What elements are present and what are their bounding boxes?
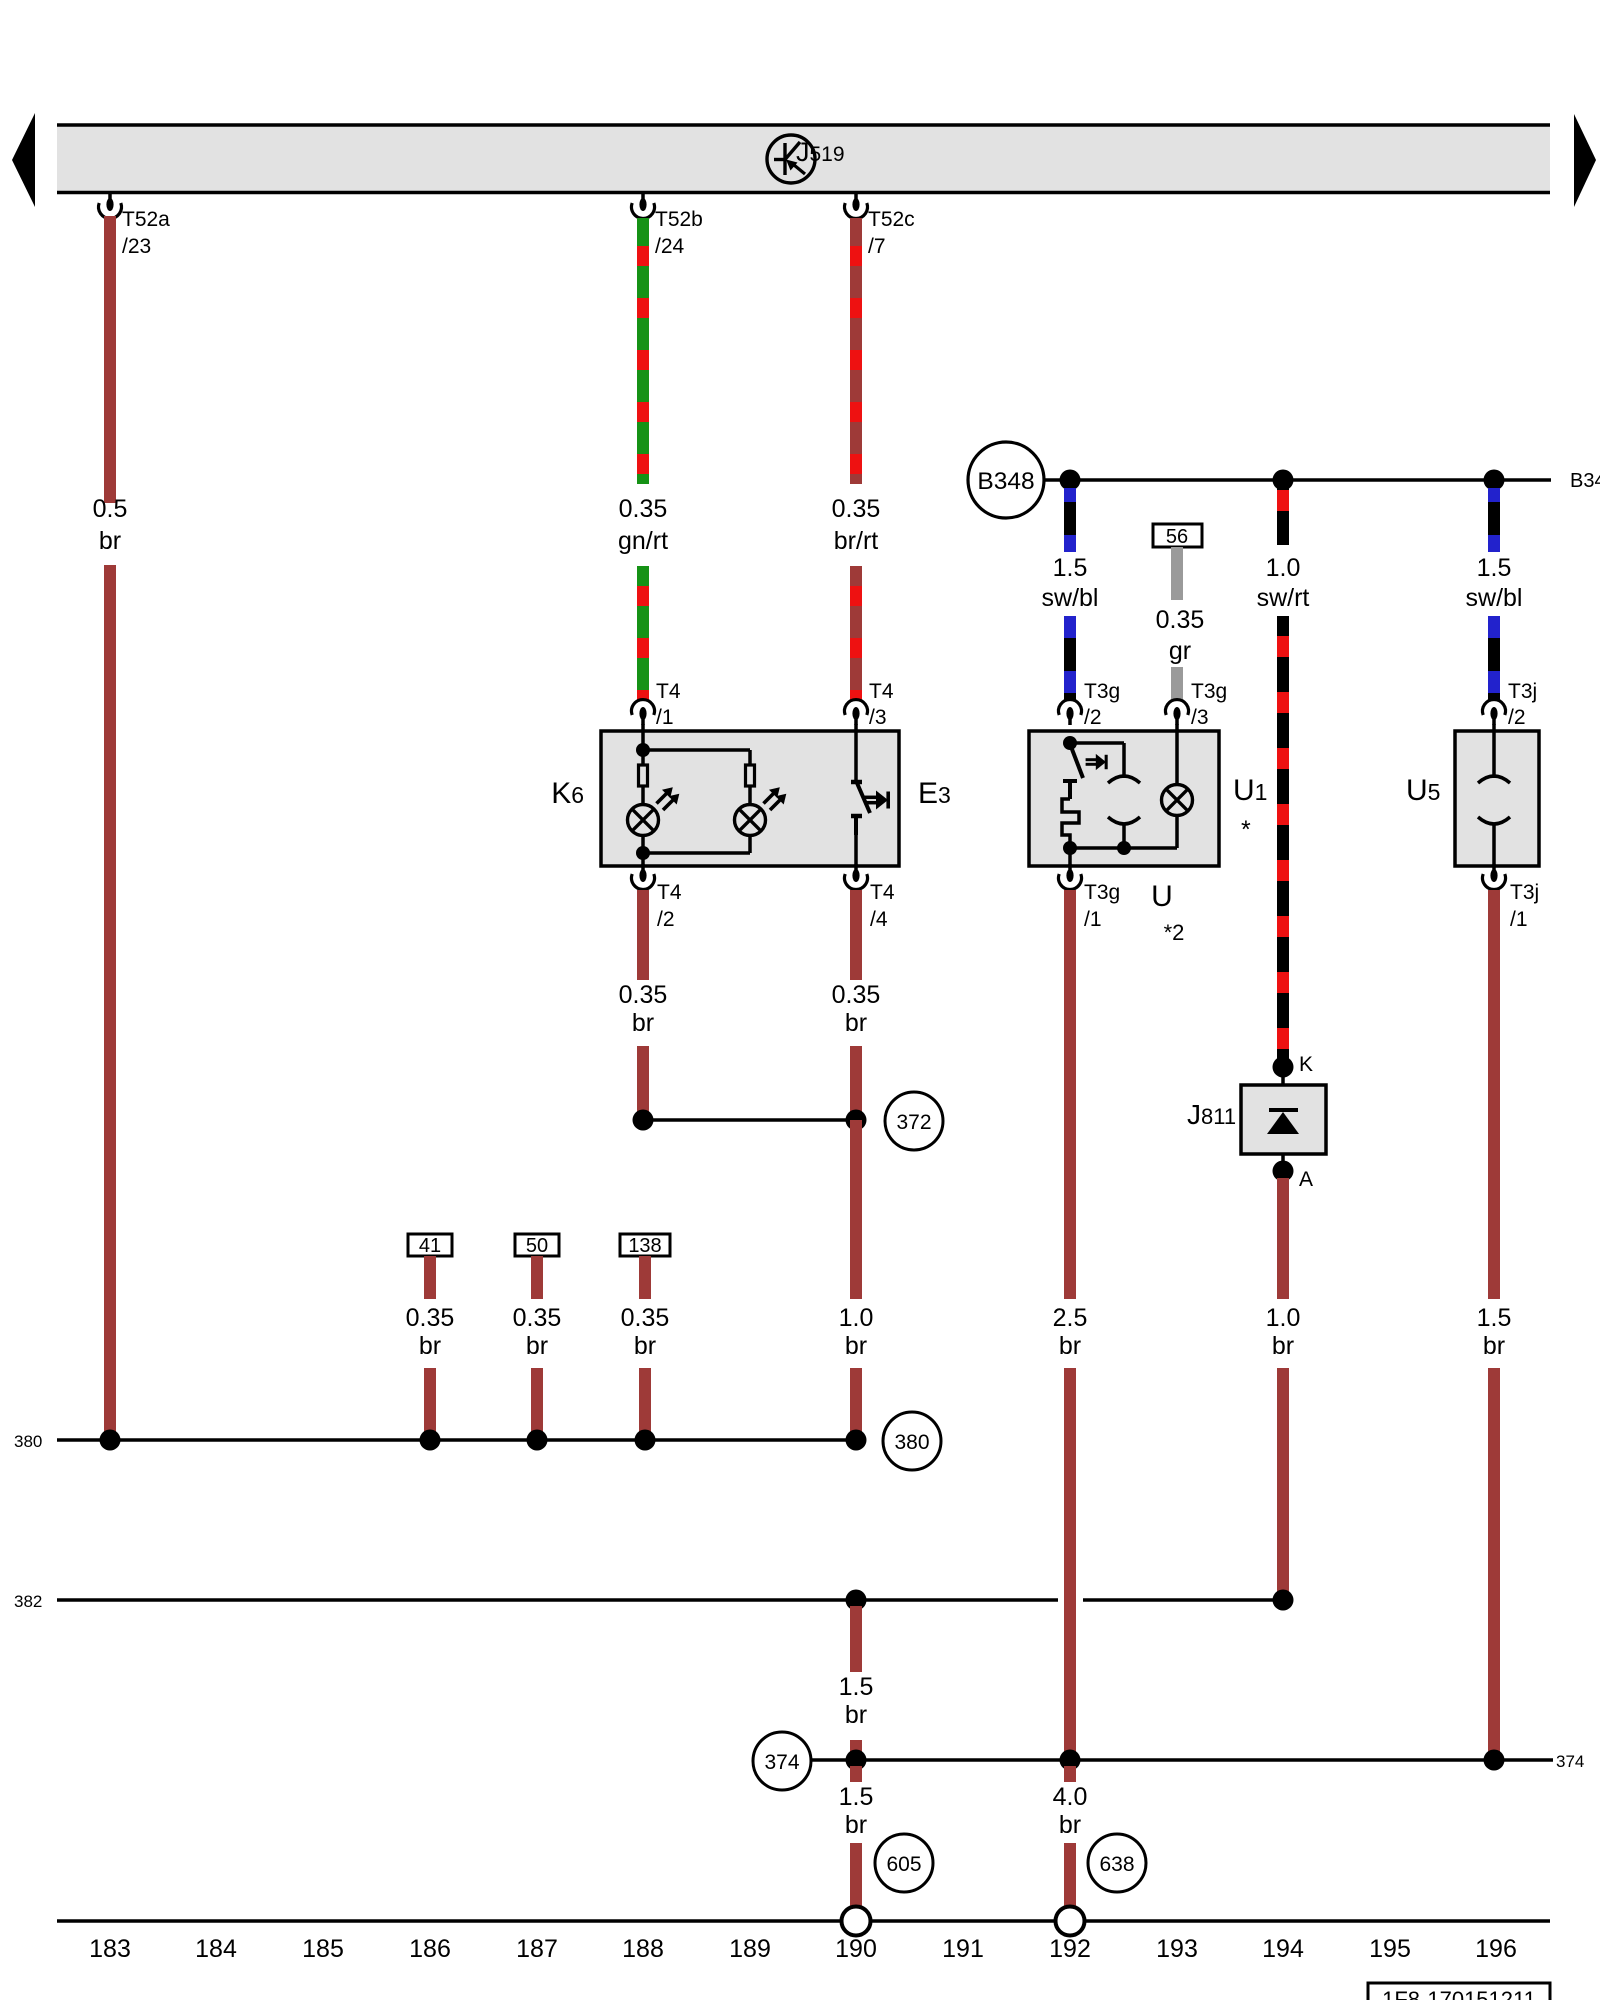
svg-text:4.0: 4.0 <box>1053 1783 1088 1811</box>
svg-text:1F8-170151211: 1F8-170151211 <box>1382 1987 1536 2000</box>
node circle 605 <box>875 1834 933 1892</box>
node circle 638 <box>1088 1834 1146 1892</box>
wire 1.0 br from J811/A (x=1283) <box>1277 1178 1289 1594</box>
svg-text:196: 196 <box>1475 1935 1517 1963</box>
connector T52b/24 <box>632 193 655 218</box>
part number box <box>1368 1983 1550 2000</box>
junction 374/x1494 <box>1484 1750 1505 1771</box>
junction 380/x430 <box>420 1430 441 1451</box>
wire 1.0 sw/rt (x=1283) <box>1277 488 1289 1060</box>
svg-text:/7: /7 <box>868 235 886 258</box>
svg-text:B348: B348 <box>977 468 1034 495</box>
wire 4.0 br x=1070 below 374 to ground 638 <box>1064 1766 1076 1782</box>
svg-text:1.5: 1.5 <box>1477 554 1512 582</box>
svg-text:E3: E3 <box>918 777 951 810</box>
svg-text:194: 194 <box>1262 1935 1304 1963</box>
svg-text:1.5: 1.5 <box>1477 1304 1512 1332</box>
svg-text:187: 187 <box>516 1935 558 1963</box>
wire 1.5 sw/bl (x=1494) <box>1488 488 1500 700</box>
svg-text:/1: /1 <box>1510 908 1528 931</box>
box K6/E3 <box>601 731 899 866</box>
svg-text:br: br <box>1059 1811 1081 1839</box>
svg-text:sw/rt: sw/rt <box>1257 584 1310 612</box>
svg-text:*: * <box>1241 816 1251 844</box>
svg-text:382: 382 <box>14 1592 42 1611</box>
wire 0.35 gn/rt from T52b (x=643) <box>637 218 649 700</box>
E3 switch with illumination <box>851 724 870 866</box>
svg-text:U5: U5 <box>1406 774 1440 807</box>
svg-text:0.35: 0.35 <box>621 1304 670 1332</box>
svg-text:/4: /4 <box>870 908 888 931</box>
connector T3g/3 <box>1166 700 1189 725</box>
box U1 <box>1029 731 1219 866</box>
svg-text:br: br <box>632 1009 654 1037</box>
svg-text:0.5: 0.5 <box>93 495 128 523</box>
wire 1.5 sw/bl (x=1070) <box>1064 488 1076 700</box>
svg-text:1.0: 1.0 <box>1266 554 1301 582</box>
connector T3g/2 <box>1059 700 1082 725</box>
svg-text:0.35: 0.35 <box>832 981 881 1009</box>
U1 antenna coupling <box>1070 743 1140 848</box>
connector T4/2 <box>632 864 655 889</box>
svg-text:605: 605 <box>886 1853 921 1876</box>
svg-text:1.5: 1.5 <box>1053 554 1088 582</box>
svg-text:193: 193 <box>1156 1935 1198 1963</box>
svg-text:638: 638 <box>1099 1853 1134 1876</box>
svg-text:gn/rt: gn/rt <box>618 527 668 555</box>
svg-text:br: br <box>1059 1332 1081 1360</box>
svg-text:0.35: 0.35 <box>406 1304 455 1332</box>
wire 2.5 br from T3g/1 (x=1070) <box>1064 890 1076 1752</box>
svg-text:0.35: 0.35 <box>619 495 668 523</box>
K6 lamp branch 2 <box>746 750 755 853</box>
junction on B348 at x=1070 <box>1060 470 1081 491</box>
connector T52a/23 <box>99 193 122 218</box>
svg-text:br: br <box>1483 1332 1505 1360</box>
terminal box 41 <box>408 1234 452 1257</box>
svg-text:U1: U1 <box>1233 774 1267 807</box>
svg-text:0.35: 0.35 <box>619 981 668 1009</box>
wire 0.35 br from T4/2 (x=643) <box>637 890 649 1115</box>
svg-text:192: 192 <box>1049 1935 1091 1963</box>
svg-text:195: 195 <box>1369 1935 1411 1963</box>
svg-text:1.0: 1.0 <box>839 1304 874 1332</box>
wire 1.0 br below 372 (x=856) <box>850 1120 862 1299</box>
svg-text:br: br <box>1272 1332 1294 1360</box>
junction 374/x1070 <box>1060 1750 1081 1771</box>
svg-text:184: 184 <box>195 1935 237 1963</box>
junction on B348 at x=1494 <box>1484 470 1505 491</box>
box J811 <box>1241 1085 1326 1154</box>
svg-text:0.35: 0.35 <box>513 1304 562 1332</box>
svg-text:T4: T4 <box>869 680 894 703</box>
svg-text:/23: /23 <box>122 235 151 258</box>
connector T4/4 <box>845 864 868 889</box>
connector T3j/1 <box>1483 864 1506 889</box>
svg-text:sw/bl: sw/bl <box>1466 584 1523 612</box>
svg-text:br: br <box>419 1332 441 1360</box>
connector T4/3 <box>845 700 868 725</box>
wire 0.35 gr (x=1177) <box>1171 547 1183 700</box>
svg-text:br: br <box>845 1009 867 1037</box>
node circle 374 <box>753 1732 811 1790</box>
svg-text:50: 50 <box>526 1235 548 1257</box>
junction 380/x856 <box>846 1430 867 1451</box>
svg-text:0.35: 0.35 <box>1156 606 1205 634</box>
node K <box>1273 1057 1294 1078</box>
svg-text:U: U <box>1151 880 1173 913</box>
wire 0.35 br/rt from T52c (x=856) <box>850 218 862 700</box>
svg-text:T52c: T52c <box>868 208 915 231</box>
svg-text:J811: J811 <box>1187 1099 1236 1130</box>
svg-text:56: 56 <box>1166 526 1188 548</box>
svg-text:br: br <box>634 1332 656 1360</box>
svg-text:138: 138 <box>628 1235 661 1257</box>
svg-text:/3: /3 <box>1191 706 1209 729</box>
J519 control-unit symbol <box>767 135 815 183</box>
svg-text:K: K <box>1299 1053 1313 1076</box>
fuse box 56 <box>1153 524 1202 548</box>
connector T3j/2 <box>1483 700 1506 725</box>
wire 1.5 br x=856 below 374 to ground 605 <box>850 1766 862 1782</box>
svg-text:380: 380 <box>894 1431 929 1454</box>
svg-text:T3g: T3g <box>1084 881 1120 904</box>
connector T4/1 <box>632 700 655 725</box>
svg-text:2.5: 2.5 <box>1053 1304 1088 1332</box>
svg-text:gr: gr <box>1169 637 1191 665</box>
svg-text:br/rt: br/rt <box>834 527 879 555</box>
svg-text:189: 189 <box>729 1935 771 1963</box>
J811 through line <box>1281 1067 1285 1171</box>
U1 stepped element <box>1062 799 1079 848</box>
node circle B348 <box>968 442 1044 518</box>
junction 380/x645 <box>635 1430 656 1451</box>
wire 1.5 br from T3j/1 (x=1494) <box>1488 890 1500 1752</box>
svg-text:/3: /3 <box>869 706 887 729</box>
node circle 380 <box>883 1412 941 1470</box>
diode symbol <box>1267 1110 1299 1134</box>
svg-text:372: 372 <box>896 1111 931 1134</box>
wire 1.5 br x=856 between 382 and 374 <box>850 1606 862 1672</box>
svg-text:T3j: T3j <box>1508 680 1537 703</box>
wire 0.35 br from T4/4 (x=856) <box>850 890 862 1115</box>
svg-text:/1: /1 <box>656 706 674 729</box>
svg-text:186: 186 <box>409 1935 451 1963</box>
svg-text:br: br <box>526 1332 548 1360</box>
junction on B348 at x=1283 <box>1273 470 1294 491</box>
svg-text:/2: /2 <box>1508 706 1526 729</box>
svg-text:191: 191 <box>942 1935 984 1963</box>
junction 374/x856 <box>846 1750 867 1771</box>
U5 antenna coupling <box>1478 724 1510 866</box>
svg-text:/2: /2 <box>657 908 675 931</box>
junction 380/x110 <box>100 1430 121 1451</box>
node circle 372 <box>885 1092 943 1150</box>
svg-text:K6: K6 <box>551 777 584 810</box>
svg-text:/24: /24 <box>655 235 685 258</box>
svg-text:T4: T4 <box>657 881 682 904</box>
svg-text:T52a: T52a <box>122 208 170 231</box>
svg-text:190: 190 <box>835 1935 877 1963</box>
svg-text:374: 374 <box>764 1751 799 1774</box>
svg-text:sw/bl: sw/bl <box>1042 584 1099 612</box>
svg-text:183: 183 <box>89 1935 131 1963</box>
svg-text:T3g: T3g <box>1084 680 1120 703</box>
connector T3g/1 <box>1059 864 1082 889</box>
box U5 <box>1455 731 1539 866</box>
svg-text:380: 380 <box>14 1432 42 1451</box>
junction 382/x1284 <box>1273 1590 1294 1611</box>
left continuation arrow <box>12 113 35 207</box>
ground point 605 <box>842 1907 871 1936</box>
svg-text:T4: T4 <box>656 680 681 703</box>
K6 bottom rail <box>636 835 750 866</box>
svg-text:185: 185 <box>302 1935 344 1963</box>
svg-text:br: br <box>845 1701 867 1729</box>
node line 372 <box>633 1110 867 1131</box>
svg-text:/2: /2 <box>1084 706 1102 729</box>
svg-text:*2: *2 <box>1164 920 1185 945</box>
svg-text:T3g: T3g <box>1191 680 1227 703</box>
svg-text:188: 188 <box>622 1935 664 1963</box>
node A <box>1273 1161 1294 1182</box>
svg-text:T52b: T52b <box>655 208 703 231</box>
svg-text:0.35: 0.35 <box>832 495 881 523</box>
U1 switch with illumination <box>1063 736 1083 799</box>
svg-text:1.5: 1.5 <box>839 1673 874 1701</box>
svg-text:T4: T4 <box>870 881 895 904</box>
U1 bottom rail <box>1063 841 1177 866</box>
svg-text:374: 374 <box>1556 1752 1584 1771</box>
terminal box 50 <box>515 1234 559 1257</box>
svg-text:B348: B348 <box>1570 470 1600 492</box>
lamp K6-1 <box>628 805 659 836</box>
svg-text:br: br <box>99 527 121 555</box>
grid numbers <box>89 1935 1517 1963</box>
svg-text:41: 41 <box>419 1235 441 1257</box>
terminal box 138 <box>620 1234 670 1257</box>
right continuation arrow <box>1574 114 1596 207</box>
K6 lamp branch 1 <box>636 724 750 805</box>
wire 0.5 br from T52a (x=110) <box>104 216 116 1432</box>
svg-text:A: A <box>1299 1168 1313 1191</box>
svg-text:1.5: 1.5 <box>839 1783 874 1811</box>
connector T52c/7 <box>845 193 868 218</box>
junction 380/x537 <box>527 1430 548 1451</box>
svg-text:br: br <box>845 1811 867 1839</box>
lamp K6-2 <box>735 805 766 836</box>
svg-text:br: br <box>845 1332 867 1360</box>
svg-text:/1: /1 <box>1084 908 1102 931</box>
svg-text:1.0: 1.0 <box>1266 1304 1301 1332</box>
junction 382/x856 <box>846 1590 867 1611</box>
ground point 638 <box>1056 1907 1085 1936</box>
wire B348 horizontal <box>1044 478 1551 481</box>
bus bar J519 <box>57 125 1550 193</box>
U1 lamp branch <box>1175 724 1179 785</box>
svg-text:T3j: T3j <box>1510 881 1539 904</box>
